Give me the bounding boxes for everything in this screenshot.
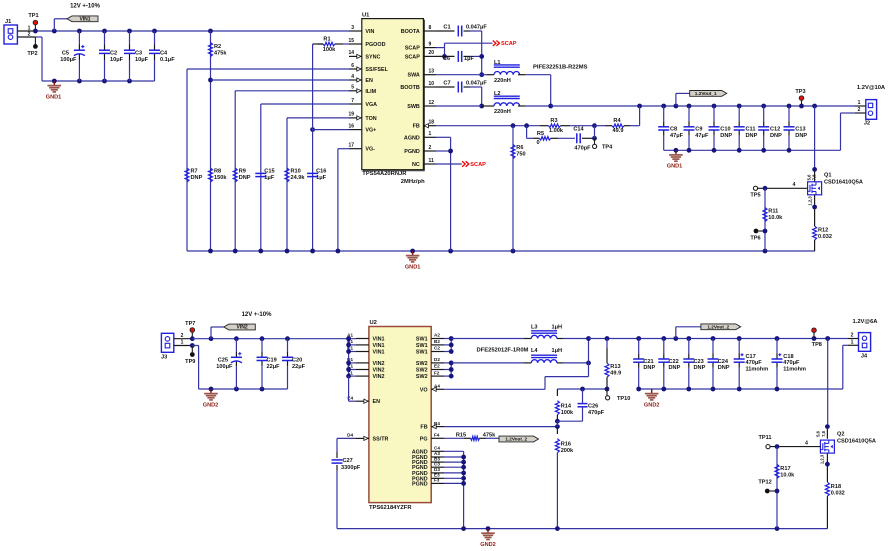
svg-text:R8: R8: [214, 169, 221, 175]
svg-text:C14: C14: [573, 126, 584, 132]
svg-text:13: 13: [429, 69, 435, 75]
svg-text:C12: C12: [770, 127, 780, 133]
svg-text:NC: NC: [412, 162, 420, 168]
svg-text:R14: R14: [561, 403, 572, 409]
svg-text:BOOTA: BOOTA: [401, 29, 420, 35]
svg-text:2MHz/ph: 2MHz/ph: [401, 179, 425, 185]
svg-text:1μH: 1μH: [552, 348, 563, 354]
svg-text:TON: TON: [365, 116, 376, 122]
svg-text:1.2V@10A: 1.2V@10A: [857, 85, 886, 91]
svg-text:10μF: 10μF: [110, 57, 124, 63]
svg-text:TP8: TP8: [812, 342, 822, 348]
svg-text:Q1: Q1: [824, 172, 831, 178]
svg-text:4: 4: [351, 74, 354, 80]
svg-text:SS/TR: SS/TR: [373, 436, 389, 442]
svg-text:0.1μF: 0.1μF: [160, 57, 175, 63]
svg-text:DNP: DNP: [718, 365, 730, 371]
svg-text:100μF: 100μF: [60, 57, 77, 63]
svg-text:1: 1: [429, 131, 432, 137]
svg-text:C2: C2: [434, 346, 440, 351]
svg-text:4: 4: [805, 441, 808, 447]
svg-text:VIN1: VIN1: [373, 337, 385, 343]
svg-text:CSD16410Q5A: CSD16410Q5A: [824, 179, 863, 185]
svg-text:SWA: SWA: [408, 73, 420, 79]
svg-text:2: 2: [858, 107, 861, 113]
svg-text:47μF: 47μF: [670, 133, 684, 139]
svg-text:R18: R18: [831, 484, 841, 490]
svg-text:100k: 100k: [323, 47, 336, 53]
svg-text:VIN: VIN: [365, 29, 374, 35]
svg-text:0.047μF: 0.047μF: [466, 81, 487, 87]
svg-text:49.9: 49.9: [613, 128, 624, 134]
svg-text:J1: J1: [5, 19, 11, 25]
svg-text:GND2: GND2: [203, 403, 219, 409]
svg-text:SW2: SW2: [416, 374, 428, 380]
svg-text:C13: C13: [795, 127, 805, 133]
svg-text:C6: C6: [443, 56, 450, 62]
svg-text:E2: E2: [434, 364, 440, 369]
svg-text:10.0k: 10.0k: [768, 215, 783, 221]
svg-text:SCAP: SCAP: [470, 162, 486, 168]
svg-text:R7: R7: [191, 169, 198, 175]
svg-text:R5: R5: [537, 131, 544, 137]
svg-text:C7: C7: [443, 81, 450, 87]
svg-text:4: 4: [793, 182, 796, 188]
svg-text:C25: C25: [218, 357, 228, 363]
svg-text:C1: C1: [443, 25, 450, 31]
svg-text:R13: R13: [610, 364, 620, 370]
svg-text:F2: F2: [434, 370, 440, 375]
svg-text:DFE252012F-1R0M: DFE252012F-1R0M: [477, 348, 529, 354]
svg-text:12: 12: [429, 100, 435, 106]
svg-text:EN: EN: [365, 78, 373, 84]
svg-text:C17: C17: [746, 354, 756, 360]
svg-text:A2: A2: [434, 333, 440, 338]
svg-text:C2: C2: [110, 50, 117, 56]
svg-text:14: 14: [348, 50, 354, 56]
svg-text:C3: C3: [135, 50, 142, 56]
svg-text:2: 2: [851, 333, 854, 339]
svg-text:10.0k: 10.0k: [780, 472, 795, 478]
svg-text:11mohm: 11mohm: [783, 366, 806, 372]
svg-text:DNP: DNP: [239, 175, 251, 181]
svg-text:C4: C4: [434, 446, 440, 451]
svg-text:DNP: DNP: [643, 365, 655, 371]
svg-text:SCAP: SCAP: [405, 46, 420, 52]
svg-text:DNP: DNP: [770, 133, 782, 139]
svg-text:2: 2: [181, 333, 184, 339]
svg-text:VIN2: VIN2: [373, 374, 385, 380]
svg-text:SW1: SW1: [416, 343, 428, 349]
svg-text:U1: U1: [362, 12, 370, 18]
svg-text:6: 6: [351, 63, 354, 69]
svg-text:C20: C20: [292, 357, 302, 363]
svg-text:1.2Vout_2: 1.2Vout_2: [707, 325, 729, 330]
svg-text:C19: C19: [267, 357, 277, 363]
svg-text:475k: 475k: [214, 51, 227, 57]
svg-text:ILIM: ILIM: [365, 89, 376, 95]
svg-text:150k: 150k: [214, 175, 227, 181]
svg-text:19: 19: [348, 112, 354, 118]
svg-text:C27: C27: [343, 458, 353, 464]
svg-text:TP10: TP10: [617, 396, 630, 402]
svg-text:1.2V@6A: 1.2V@6A: [853, 319, 879, 325]
svg-text:470μF: 470μF: [783, 360, 800, 366]
svg-text:BOOTB: BOOTB: [400, 85, 420, 91]
svg-text:C3: C3: [434, 461, 440, 466]
svg-text:VIN2: VIN2: [236, 325, 247, 331]
svg-text:3: 3: [351, 25, 354, 31]
svg-text:D4: D4: [347, 433, 353, 438]
svg-text:24.9k: 24.9k: [291, 175, 306, 181]
svg-text:R9: R9: [239, 169, 246, 175]
svg-text:1: 1: [181, 340, 184, 346]
svg-text:C11: C11: [746, 127, 756, 133]
svg-text:PGND: PGND: [404, 149, 420, 155]
svg-text:R15: R15: [456, 433, 466, 439]
svg-text:TP4: TP4: [602, 145, 613, 151]
svg-text:R11: R11: [768, 209, 778, 215]
svg-text:R10: R10: [291, 169, 301, 175]
svg-text:TP12: TP12: [758, 479, 771, 485]
svg-text:EN: EN: [373, 399, 381, 405]
svg-text:VIN1: VIN1: [79, 17, 90, 23]
svg-text:100μF: 100μF: [216, 364, 233, 370]
svg-text:DNP: DNP: [669, 365, 681, 371]
svg-text:49.9: 49.9: [610, 371, 621, 377]
svg-text:1: 1: [858, 100, 861, 106]
svg-text:Q2: Q2: [837, 431, 844, 437]
svg-text:C10: C10: [720, 127, 730, 133]
svg-text:SW2: SW2: [416, 361, 428, 367]
svg-text:AGND: AGND: [404, 135, 420, 141]
svg-text:R3: R3: [550, 118, 557, 124]
svg-text:100k: 100k: [561, 410, 574, 416]
svg-text:TP2: TP2: [27, 51, 37, 57]
svg-text:2: 2: [429, 145, 432, 151]
svg-text:1,2,3: 1,2,3: [820, 454, 825, 464]
svg-text:VO: VO: [420, 387, 428, 393]
svg-text:GND1: GND1: [667, 164, 683, 170]
svg-text:VGA: VGA: [365, 102, 377, 108]
svg-text:FB: FB: [420, 425, 427, 431]
svg-text:D2: D2: [434, 357, 440, 362]
svg-text:0.047μF: 0.047μF: [466, 25, 487, 31]
svg-text:PGND: PGND: [412, 481, 428, 487]
svg-text:R12: R12: [818, 228, 828, 234]
svg-text:220nH: 220nH: [494, 109, 511, 115]
svg-text:DNP: DNP: [746, 133, 758, 139]
svg-text:17: 17: [348, 143, 354, 149]
svg-text:J4: J4: [861, 354, 868, 360]
svg-text:J3: J3: [161, 354, 167, 360]
svg-text:TPS62184YZFR: TPS62184YZFR: [369, 505, 412, 511]
svg-text:220nH: 220nH: [494, 78, 511, 84]
svg-text:CSD16410Q5A: CSD16410Q5A: [837, 438, 876, 444]
svg-text:C8: C8: [670, 127, 677, 133]
svg-text:750: 750: [516, 152, 525, 158]
svg-text:D3: D3: [434, 467, 440, 472]
svg-text:VG-: VG-: [365, 147, 375, 153]
svg-text:VIN1: VIN1: [373, 343, 385, 349]
svg-text:15: 15: [348, 38, 354, 44]
svg-text:C23: C23: [694, 359, 704, 365]
svg-text:2: 2: [28, 32, 31, 38]
svg-text:FB: FB: [413, 124, 420, 130]
svg-text:C22: C22: [669, 359, 679, 365]
svg-text:475k: 475k: [483, 433, 496, 439]
svg-text:R1: R1: [323, 36, 330, 42]
svg-text:TP1: TP1: [28, 13, 38, 19]
svg-text:470pF: 470pF: [588, 410, 605, 416]
svg-text:SW1: SW1: [416, 350, 428, 356]
svg-text:TP11: TP11: [758, 435, 771, 441]
svg-text:PGOOD: PGOOD: [365, 42, 385, 48]
svg-text:R17: R17: [780, 466, 790, 472]
svg-text:GND2: GND2: [480, 542, 496, 548]
svg-text:C5: C5: [62, 50, 69, 56]
svg-text:0.032: 0.032: [818, 234, 832, 240]
svg-text:5,6: 5,6: [806, 174, 811, 180]
svg-text:12V +-10%: 12V +-10%: [70, 4, 101, 10]
svg-text:0: 0: [536, 140, 539, 146]
svg-text:22μF: 22μF: [267, 364, 281, 370]
svg-text:C15: C15: [264, 169, 274, 175]
svg-text:B2: B2: [434, 339, 440, 344]
svg-text:SW1: SW1: [416, 337, 428, 343]
svg-text:F4: F4: [434, 433, 440, 438]
svg-text:C9: C9: [695, 127, 702, 133]
svg-text:1μF: 1μF: [316, 175, 327, 181]
svg-text:L1: L1: [494, 60, 501, 66]
svg-text:SCAP: SCAP: [405, 54, 420, 60]
svg-text:47μF: 47μF: [695, 133, 709, 139]
svg-text:DNP: DNP: [694, 365, 706, 371]
svg-text:VIN2: VIN2: [373, 368, 385, 374]
svg-text:R2: R2: [214, 44, 221, 50]
svg-text:470μF: 470μF: [746, 360, 763, 366]
svg-text:1,2,3: 1,2,3: [808, 196, 813, 206]
svg-text:22μF: 22μF: [292, 364, 306, 370]
svg-text:GND2: GND2: [644, 403, 660, 409]
svg-text:8: 8: [429, 25, 432, 31]
svg-text:C4: C4: [160, 50, 168, 56]
svg-text:DNP: DNP: [795, 133, 807, 139]
svg-text:TP7: TP7: [185, 321, 195, 327]
svg-text:1μF: 1μF: [464, 56, 475, 62]
svg-text:200k: 200k: [561, 448, 574, 454]
svg-text:GND1: GND1: [405, 265, 421, 271]
svg-text:VG+: VG+: [365, 128, 376, 134]
svg-text:12V +-10%: 12V +-10%: [242, 312, 273, 318]
svg-text:SW2: SW2: [416, 368, 428, 374]
svg-text:L3: L3: [531, 325, 538, 331]
svg-text:R6: R6: [516, 145, 523, 151]
svg-text:1μF: 1μF: [264, 175, 275, 181]
svg-text:PIFE32251B-R22MS: PIFE32251B-R22MS: [533, 64, 588, 70]
svg-text:1.00k: 1.00k: [549, 128, 564, 134]
svg-text:L4: L4: [531, 348, 538, 354]
svg-text:20: 20: [429, 50, 435, 56]
svg-text:DNP: DNP: [720, 133, 732, 139]
svg-text:9: 9: [429, 41, 432, 47]
svg-text:SCAP: SCAP: [501, 41, 517, 47]
svg-text:L2: L2: [494, 91, 501, 97]
svg-text:1.2Vout_2: 1.2Vout_2: [505, 437, 527, 442]
svg-text:TP9: TP9: [185, 359, 195, 365]
svg-text:7,8: 7,8: [812, 174, 817, 180]
svg-text:5: 5: [351, 85, 354, 91]
svg-text:0.032: 0.032: [831, 491, 845, 497]
svg-text:C26: C26: [588, 403, 598, 409]
svg-text:SWB: SWB: [407, 104, 420, 110]
svg-text:PG: PG: [420, 436, 428, 442]
svg-text:R4: R4: [613, 118, 621, 124]
svg-text:TP6: TP6: [750, 236, 760, 242]
svg-text:SYNC: SYNC: [365, 54, 380, 60]
svg-text:U2: U2: [370, 320, 377, 326]
svg-text:VIN1: VIN1: [373, 350, 385, 356]
svg-text:7: 7: [351, 98, 354, 104]
svg-text:18: 18: [429, 120, 435, 126]
svg-text:TP3: TP3: [795, 89, 805, 95]
svg-text:R16: R16: [561, 441, 571, 447]
svg-text:10μF: 10μF: [135, 57, 149, 63]
svg-text:C18: C18: [783, 354, 793, 360]
svg-text:11: 11: [429, 158, 435, 164]
svg-text:SS/FSEL: SS/FSEL: [365, 67, 388, 73]
svg-text:1: 1: [28, 25, 31, 31]
svg-text:TP5: TP5: [750, 193, 760, 199]
svg-text:TPS54A20RNJR: TPS54A20RNJR: [362, 171, 407, 177]
svg-text:C21: C21: [643, 359, 653, 365]
svg-text:7,8: 7,8: [821, 430, 826, 436]
svg-text:F3: F3: [434, 478, 440, 483]
svg-text:11mohm: 11mohm: [746, 366, 769, 372]
svg-text:1.2Vout_1: 1.2Vout_1: [695, 91, 717, 96]
svg-text:1: 1: [851, 340, 854, 346]
svg-text:VIN2: VIN2: [373, 361, 385, 367]
svg-text:1μH: 1μH: [552, 325, 563, 331]
svg-text:DNP: DNP: [191, 175, 203, 181]
svg-text:J2: J2: [864, 120, 870, 126]
svg-text:3300pF: 3300pF: [341, 465, 361, 471]
svg-text:GND1: GND1: [46, 95, 62, 101]
svg-text:C24: C24: [718, 359, 729, 365]
svg-text:470pF: 470pF: [574, 145, 591, 151]
svg-text:C16: C16: [316, 169, 326, 175]
svg-text:16: 16: [348, 123, 354, 129]
svg-text:5,6: 5,6: [816, 430, 821, 436]
svg-text:10: 10: [429, 81, 435, 87]
